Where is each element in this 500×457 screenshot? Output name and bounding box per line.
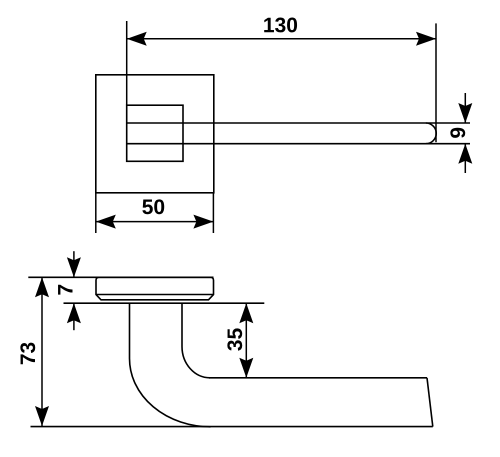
dimension 7 arrows	[67, 251, 81, 330]
side view: grip right end slant	[427, 378, 433, 427]
dimension 9 arrows	[458, 93, 472, 173]
side view: rose plate outline	[96, 277, 214, 300]
side view: door surface line	[64, 302, 265, 304]
dimension line 50	[96, 215, 214, 229]
dimension 73 line and arrows	[35, 277, 49, 426]
top view: extension line right (x=436)	[435, 23, 437, 142]
neck inner square (top view)	[127, 105, 183, 161]
label 73 (rotated)	[20, 343, 35, 365]
side view: grip top edge	[209, 377, 427, 379]
50-dim extension lines	[96, 193, 214, 233]
label 130	[264, 18, 297, 33]
side view: rose top line + extension (y=277.3)	[28, 276, 213, 278]
top view: extension line left (x=126.7)	[126, 21, 128, 105]
rose outer square (top view)	[96, 75, 214, 193]
side view: bottom reference line	[31, 426, 433, 428]
label 7 (rotated)	[58, 285, 72, 295]
dimension 35 line and arrows	[239, 303, 253, 378]
label 35 (rotated)	[227, 328, 242, 350]
lever bar (top view) with rounded end	[127, 123, 470, 144]
label 50	[142, 199, 164, 214]
dimension line 130	[127, 32, 436, 46]
side view: neck left edge curving into grip	[130, 303, 211, 427]
side view: neck right edge curving to grip top	[182, 303, 210, 378]
label 9 (rotated)	[450, 128, 465, 138]
